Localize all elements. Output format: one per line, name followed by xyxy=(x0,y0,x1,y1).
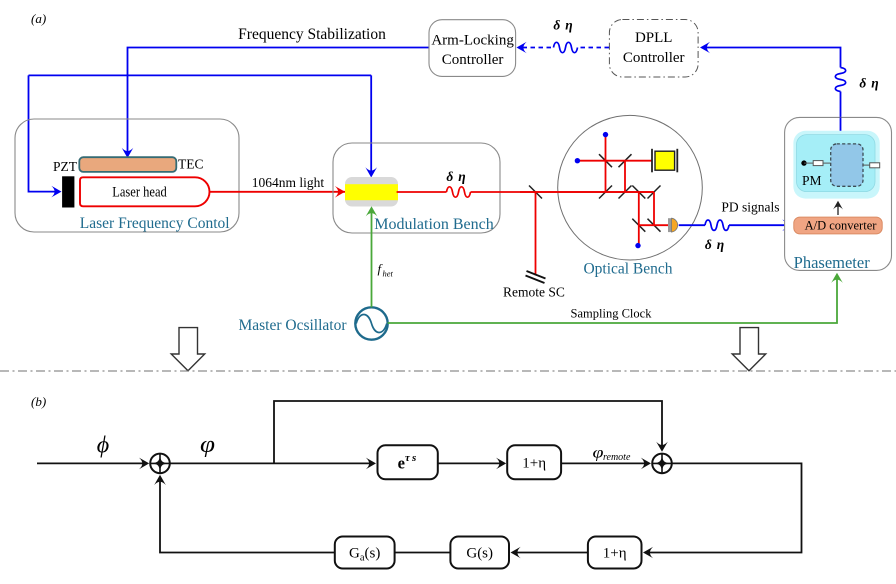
beamsplitter C8 xyxy=(648,219,661,232)
remote SC break slashes xyxy=(527,271,546,279)
svg-text:ϕ: ϕ xyxy=(97,433,109,459)
wire: G(s) to Ga(s) xyxy=(395,552,451,554)
beamsplitter C5 xyxy=(632,186,645,199)
arrow into EOM top xyxy=(365,167,377,177)
svg-text:Ga(s): Ga(s) xyxy=(349,546,380,564)
section arrow right xyxy=(732,328,766,371)
svg-text:Master Ocsillator: Master Ocsillator xyxy=(238,317,347,334)
wire: remote SC drop (red) xyxy=(535,192,537,275)
svg-text:(b): (b) xyxy=(31,394,46,409)
optical wire: lower horizontal to photodiode xyxy=(639,224,669,226)
wire: e^ts to 1+eta xyxy=(438,462,501,464)
svg-text:Arm-Locking: Arm-Locking xyxy=(431,33,514,49)
wire: J1 to e^ts box xyxy=(170,462,371,464)
dashed wire DPLL to Arm-Locking (blue) xyxy=(577,47,609,49)
PM input dot xyxy=(801,160,806,165)
arrow into EOM (red) xyxy=(335,186,345,198)
svg-text:φ: φ xyxy=(200,432,215,458)
beamsplitter C4 xyxy=(619,186,632,199)
block 1+eta (bottom) xyxy=(588,537,642,569)
wire: 1+eta to G(s) xyxy=(514,552,588,554)
svg-text:remote: remote xyxy=(603,452,631,463)
TEC block xyxy=(79,157,176,172)
svg-text:Controller: Controller xyxy=(442,52,504,68)
svg-text:het: het xyxy=(383,269,394,279)
svg-text:1+η: 1+η xyxy=(522,455,546,471)
wire: Arm-Locking output to TEC (blue) xyxy=(128,48,430,153)
PM wiring xyxy=(804,162,813,164)
optical wire: vertical 2 xyxy=(624,161,626,192)
block Ga(s) xyxy=(335,537,395,569)
wire: down to EOM (blue) xyxy=(370,75,372,171)
svg-text:A/D converter: A/D converter xyxy=(805,219,878,233)
svg-text:δη: δη xyxy=(553,18,572,33)
svg-text:Phasemeter: Phasemeter xyxy=(794,253,871,272)
wire: main beam redraw over splitters xyxy=(520,191,654,193)
beamsplitter C7 xyxy=(632,219,645,232)
optical wire: vertical 4 xyxy=(653,192,655,225)
wire: bypass top xyxy=(274,401,662,463)
noise coil on dashed wire xyxy=(554,42,578,52)
Optical Bench circle xyxy=(558,115,703,260)
noise coil vertical xyxy=(835,68,845,92)
EOM block xyxy=(345,177,398,207)
arrow into TEC xyxy=(122,148,134,158)
wire: branch to PZT and EOM (blue horizontal) xyxy=(29,74,372,76)
Phasemeter container xyxy=(785,117,892,270)
beamsplitter at remote tap xyxy=(529,186,542,199)
optical wire: upper horizontal xyxy=(578,160,652,162)
summing junction J2 xyxy=(652,454,672,474)
svg-text:G(s): G(s) xyxy=(466,546,493,562)
svg-text:δη: δη xyxy=(705,237,724,252)
beamsplitter C1 xyxy=(599,154,612,167)
optical wire: vertical from top fiber xyxy=(605,136,607,192)
arrow into Arm-Locking xyxy=(517,42,527,54)
svg-text:Modulation Bench: Modulation Bench xyxy=(374,216,494,233)
Master Ocsillator symbol xyxy=(355,307,387,339)
svg-text:Controller: Controller xyxy=(623,50,685,66)
svg-text:PM: PM xyxy=(802,173,822,188)
wire: input phi xyxy=(37,462,144,464)
wire Phasemeter to DPLL (blue) xyxy=(840,92,842,132)
arrow into DPLL xyxy=(700,42,710,54)
wire: laser output (red) xyxy=(210,191,347,193)
arrow into PZT xyxy=(51,186,61,198)
svg-text:DPLL: DPLL xyxy=(635,30,673,46)
wire: sampling clock (green) xyxy=(388,276,837,323)
PM block front layer xyxy=(797,135,876,192)
beamsplitter C2 xyxy=(619,154,632,167)
PZT block xyxy=(62,176,74,207)
divider dash-dot line xyxy=(0,370,896,372)
svg-text:Frequency Stabilization: Frequency Stabilization xyxy=(238,26,386,43)
laser head xyxy=(80,177,210,206)
beamsplitter C6 xyxy=(648,186,661,199)
svg-text:1064nm light: 1064nm light xyxy=(252,175,325,190)
section arrow left xyxy=(171,328,205,371)
photodiode PD xyxy=(668,218,672,232)
block G(s) xyxy=(450,537,509,569)
optical wire: vertical 3 to bottom fiber xyxy=(638,192,640,244)
svg-text:1+η: 1+η xyxy=(603,546,627,562)
svg-text:Laser head: Laser head xyxy=(112,184,167,200)
mirror detector assembly (yellow) xyxy=(651,149,653,173)
Laser Frequency Contol container xyxy=(15,119,239,232)
svg-text:PD signals: PD signals xyxy=(721,200,779,215)
wire: 1+eta to J2 xyxy=(561,462,645,464)
svg-text:δη: δη xyxy=(859,76,878,91)
DPLL Controller box (dash-dot border) xyxy=(609,20,698,78)
PM inner dashed block xyxy=(831,144,863,186)
wire: down-left to PZT xyxy=(29,75,56,191)
PM block back layer xyxy=(793,131,879,199)
svg-text:Sampling Clock: Sampling Clock xyxy=(571,307,653,321)
beamsplitter C3 xyxy=(599,186,612,199)
fiber node bottom xyxy=(635,243,640,248)
block 1+eta (top) xyxy=(507,445,561,479)
wire blue into PM (redraw over box) xyxy=(840,117,842,132)
wire: Ga(s) back to J1 xyxy=(160,478,335,553)
wire: PD signals (blue) with coil xyxy=(679,224,705,226)
wire: J2 to feedback right xyxy=(647,463,802,552)
wire: oscillator to EOM (green) xyxy=(371,211,373,307)
svg-text:Laser Frequency Contol: Laser Frequency Contol xyxy=(80,215,230,232)
summing junction J1 xyxy=(150,454,170,474)
Arm-Locking Controller box xyxy=(429,20,516,77)
fiber node left xyxy=(575,158,580,163)
svg-text:Optical Bench: Optical Bench xyxy=(583,261,672,278)
Modulation Bench container xyxy=(333,143,500,233)
svg-text:φ: φ xyxy=(593,445,604,462)
fiber node top xyxy=(603,132,608,137)
svg-text:(a): (a) xyxy=(31,11,46,26)
wire: EOM to optical bench (red) with noise coil xyxy=(397,191,447,193)
svg-text:Remote SC: Remote SC xyxy=(503,285,565,300)
svg-text:TEC: TEC xyxy=(178,157,204,172)
svg-text:δη: δη xyxy=(446,169,465,184)
svg-text:PZT: PZT xyxy=(53,159,78,174)
A/D converter block xyxy=(794,217,882,234)
arrow A/D to PM (black) xyxy=(837,204,839,216)
block e^ts xyxy=(378,445,438,479)
